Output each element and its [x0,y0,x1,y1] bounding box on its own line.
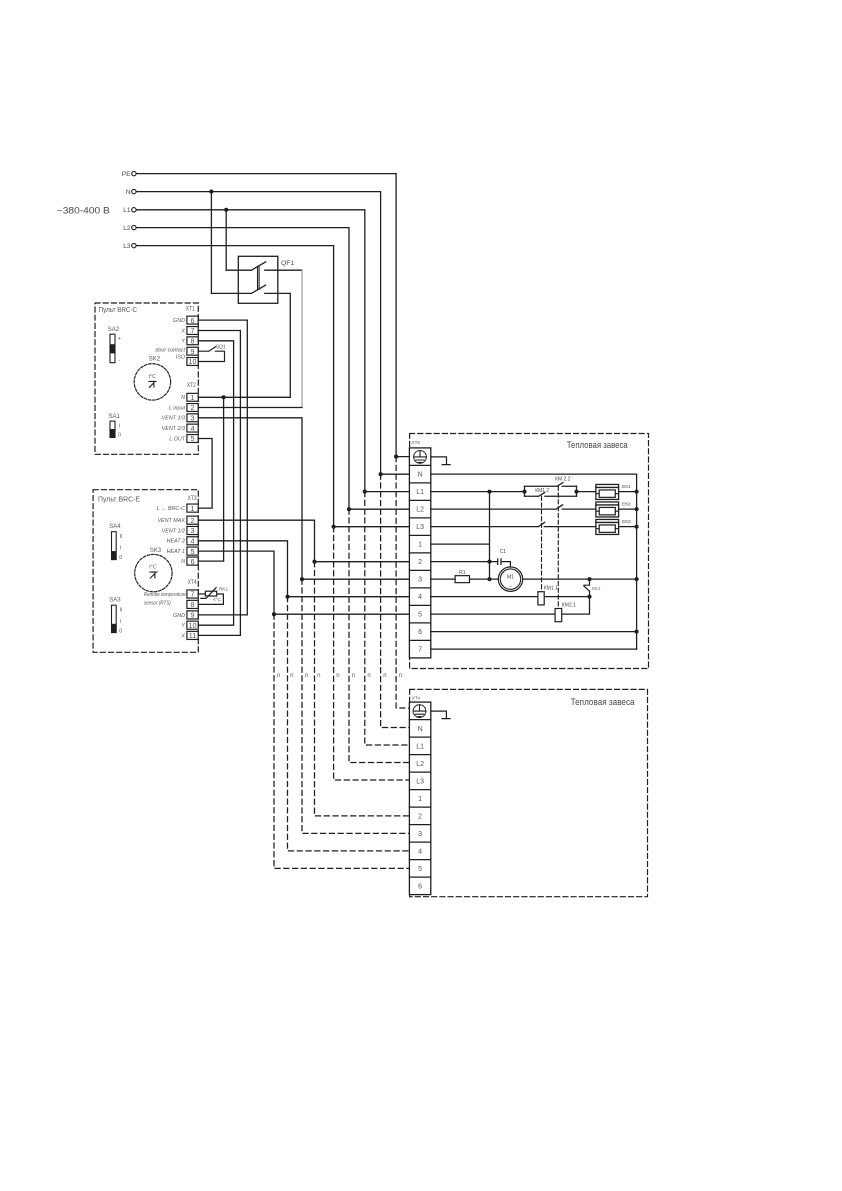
svg-text:N: N [181,559,185,565]
wire L1 down to QF1 pole 1 [225,210,227,270]
wire HEAT 2 dashed continuation to XTn-4 [288,597,410,851]
svg-text:+: + [118,336,121,342]
junction KM pair left [522,490,526,494]
svg-text:4: 4 [191,424,195,433]
svg-text:L3: L3 [416,524,424,531]
junction motor/SK1 [587,577,591,581]
svg-text:~: ~ [509,584,512,589]
terminal PE [132,171,136,175]
svg-text:SK1: SK1 [592,586,601,592]
svg-text:2: 2 [191,516,195,525]
junction KM pair right [574,490,578,494]
svg-text:~380-400 В: ~380-400 В [57,205,110,215]
svg-text:XT3: XT3 [188,496,198,502]
junction ЕК3/N bus [635,525,639,529]
svg-text:VENT 1/3: VENT 1/3 [162,416,185,422]
terminal XT2-5 [187,435,198,443]
terminal XT5-PE (earth) [414,451,427,464]
svg-text:6: 6 [191,316,195,325]
svg-text:II: II [120,534,123,540]
mechanical link KM1.2 (dashed) [541,496,543,591]
svg-text:XT1: XT1 [186,307,196,313]
ground symbol at XTn [431,711,450,719]
svg-text:10: 10 [189,357,197,366]
svg-text:GND: GND [173,613,185,619]
svg-text:X: X [180,328,185,334]
junction N / XT3-6 branch [222,395,226,399]
wire L2 dashed continuation to XTn-L2 [349,509,410,762]
svg-text:XT4: XT4 [188,580,198,586]
junction L2/XT5 [347,507,351,511]
svg-text:Тепловая завеса: Тепловая завеса [571,697,635,707]
svg-text:4: 4 [191,537,195,546]
svg-text:n: n [336,673,339,679]
svg-text:7: 7 [191,326,195,335]
junction VENT MAX / XT5-2 [312,560,316,564]
wire L1 branch to XT5-1, C1 and motor [431,492,490,580]
terminal L3 [132,243,136,247]
svg-text:1: 1 [191,504,195,513]
resistor R1 [431,570,499,582]
terminal XT4-10 [187,621,198,629]
svg-text:ЕК1: ЕК1 [622,484,631,490]
svg-text:n: n [383,673,386,679]
svg-text:7: 7 [191,590,195,599]
wire N dashed continuation to XTn-N [381,474,410,727]
wire VENT MAX dashed continuation to XTn-2 [315,562,410,816]
wire VENT 1/3 dashed continuation to XTn-3 [302,579,410,833]
terminal XT2-3 [187,414,198,422]
wire ЕК2 to N bus [619,508,637,510]
wire N from supply to XT5-N [136,192,409,475]
svg-text:R1: R1 [459,570,466,576]
wire PE dashed continuation to XTn-PE [396,457,409,708]
svg-text:n: n [305,673,308,679]
svg-text:6: 6 [418,883,422,890]
svg-text:L2: L2 [416,507,424,514]
junction HEAT 1 / XT5-5 [272,612,276,616]
svg-text:9: 9 [191,347,195,356]
contactor coil KM2.1 [431,597,590,622]
svg-text:8: 8 [191,337,195,346]
terminal N [132,189,136,193]
terminal XT1-6 [187,316,198,324]
svg-text:RK1: RK1 [219,587,229,593]
terminal XT4-8 [187,600,198,608]
svg-text:M1: M1 [507,574,514,580]
svg-text:0: 0 [118,433,121,439]
svg-text:3: 3 [418,577,422,584]
thermal switch SK1 [584,579,601,597]
svg-text:9: 9 [191,611,195,620]
svg-text:XT2: XT2 [187,383,197,389]
svg-text:6: 6 [191,557,195,566]
circuit breaker QF1 [211,256,294,303]
wire PE from supply to XT5-PE [136,174,409,457]
svg-text:3: 3 [418,831,422,838]
junction ЕК2/N bus [635,507,639,511]
terminal XT3-1 [187,504,198,512]
ground symbol at XT5 [431,457,450,465]
contactor coil KM1.1 [431,586,590,605]
svg-text:QF1: QF1 [281,260,294,267]
terminal XT3-2 [187,516,198,524]
svg-text:3: 3 [191,414,195,423]
svg-text:8: 8 [191,600,195,609]
svg-text:10: 10 [189,621,197,630]
svg-text:L1: L1 [416,743,424,750]
wire VENT MAX: XT3-2 to XT5-2 [198,520,409,562]
svg-text:1: 1 [191,393,195,402]
mechanical link KM2.2 (dashed) [557,486,559,608]
svg-text:n: n [367,673,370,679]
junction L1 / QF1 branch [224,208,228,212]
wire HEAT 1 dashed continuation to XTn-5 [274,614,410,868]
contactor contact KM1.2 pole on L3 [431,522,596,526]
heater ЕК1 [596,484,631,500]
thermostat SK3 [135,548,172,592]
svg-text:4: 4 [418,594,422,601]
wire ЕК3 to N bus [619,526,637,528]
svg-text:1: 1 [418,542,422,549]
labels n (wire designators) [277,673,402,679]
svg-text:PE: PE [122,171,131,178]
junction XT5-6/N bus [635,630,639,634]
svg-text:1: 1 [418,796,422,803]
svg-text:SQ1: SQ1 [216,344,226,350]
junction L1/motor branch [487,490,491,494]
svg-text:I: I [120,619,121,625]
terminal XT4-9 [187,611,198,619]
wire ЕК1 to N bus [619,491,637,493]
junction N/XT5 [379,472,383,476]
svg-text:n: n [290,673,293,679]
svg-text:XT5: XT5 [412,440,421,445]
svg-text:L ← BRC-C: L ← BRC-C [157,506,185,512]
svg-text:2: 2 [418,813,422,820]
svg-text:11: 11 [189,631,196,640]
junction L1/XT5 [363,490,367,494]
terminal XT4-7 [187,590,198,598]
svg-text:L input: L input [169,405,186,411]
contactor contact KM2.2 pole on L2 [431,505,596,509]
svg-text:2: 2 [418,559,422,566]
door switch SQ1 [198,344,226,361]
svg-text:SA2: SA2 [108,327,120,333]
svg-text:X: X [180,633,185,639]
svg-text:n: n [277,673,280,679]
svg-text:Y: Y [181,623,185,629]
svg-text:SK2: SK2 [149,357,161,363]
svg-text:n: n [317,673,320,679]
panel Пульт BRC-E (dashed enclosure) [93,490,198,653]
svg-text:L1: L1 [416,489,424,496]
svg-text:HEAT 1: HEAT 1 [167,549,185,555]
wire VENT 1/3: XT2-3 to XT5-3 [198,418,409,579]
thermistor RK1 [198,587,228,605]
junction ЕК1/N bus [635,490,639,494]
svg-text:L3: L3 [416,778,424,785]
svg-text:5: 5 [191,547,195,556]
terminal XT1-8 [187,337,198,345]
wire L3 from supply to XT5-L3 [136,246,409,527]
wire L1 to EK1 [577,491,596,493]
svg-text:SA3: SA3 [109,598,121,604]
junction SK1/coils [587,595,591,599]
junction motor/N bus [635,577,639,581]
svg-text:N: N [181,395,185,401]
svg-text:door contact: door contact [155,347,185,353]
svg-text:SK3: SK3 [150,548,162,554]
svg-text:N: N [418,472,423,479]
wire N branch to XT3-6 [198,397,223,561]
capacitor C1 [490,549,511,567]
motor M1 [498,567,522,591]
wire L2 from supply to XT5-L2 [136,228,409,510]
svg-text:0: 0 [119,629,122,635]
svg-text:Remote temperature: Remote temperature [144,592,186,598]
terminal L1 [132,208,136,212]
wire X: XT1-7 to XT4-11 [198,331,240,636]
svg-text:I: I [120,546,121,552]
terminal XT3-4 [187,537,198,545]
svg-text:t°C: t°C [149,565,157,571]
wire L OUT: XT2-5 to XT3-1 [198,439,212,509]
enclosure Тепловая завеса n (dashed) [410,689,648,896]
svg-text:N: N [126,189,131,196]
terminal L2 [132,225,136,229]
svg-text:Y: Y [181,339,185,345]
svg-text:HEAT 2: HEAT 2 [167,539,185,545]
heater ЕК2 [596,501,631,517]
svg-text:Пульт BRC-E: Пульт BRC-E [98,495,140,504]
svg-text:КМ2.1: КМ2.1 [562,603,576,609]
terminal XT4-11 [187,631,198,639]
svg-text:3: 3 [191,526,195,535]
switch SA4 [109,524,122,561]
terminal XT1-7 [187,327,198,335]
svg-text:VENT MAX: VENT MAX [157,518,185,524]
wire N down to QF1 pole 2 [210,192,212,294]
thermostat SK2 [134,357,170,400]
wire Y: XT1-8 to XT4-10 [198,341,233,625]
svg-text:-t°C: -t°C [213,597,222,603]
svg-text:t°C: t°C [149,374,157,380]
wire XT5-6 to N bus [431,631,637,633]
wire HEAT 2: XT3-4 to XT5-4 [198,541,409,597]
svg-text:VENT 1/2: VENT 1/2 [162,528,185,534]
terminal XT2-2 [187,404,198,412]
junction L3/XT5 [332,525,336,529]
svg-text:N: N [418,726,423,733]
junction C1 row [487,560,491,564]
svg-text:SA4: SA4 [109,524,121,530]
wire N bus [431,474,637,649]
switch SA1 [109,414,122,439]
wire XT5-7 to N bus [431,648,637,650]
svg-text:2: 2 [191,403,195,412]
junction N / QF1 branch [209,190,213,194]
svg-text:ISO: ISO [176,354,186,360]
svg-text:0: 0 [119,555,122,561]
svg-text:II: II [120,608,123,614]
svg-text:КМ1.1: КМ1.1 [544,586,558,592]
svg-text:КМ 2.2: КМ 2.2 [555,476,571,482]
svg-text:n: n [399,673,402,679]
terminal XT3-6 [187,557,198,565]
terminal XT3-5 [187,547,198,555]
terminal XT2-1 [187,393,198,401]
junction motor row [487,577,491,581]
terminal XT1-9 [187,347,198,355]
svg-text:6: 6 [418,629,422,636]
svg-text:GND: GND [173,318,185,324]
wire N: XT2-1 row [198,396,290,398]
svg-text:КМ1.2: КМ1.2 [535,488,549,494]
svg-text:5: 5 [418,612,422,619]
wire L input: XT2-2 row [198,407,302,409]
svg-text:L2: L2 [123,225,131,232]
svg-text:sensor (RTS): sensor (RTS) [144,601,171,607]
svg-text:C1: C1 [500,549,507,555]
wire L1 row in curtain [431,491,525,493]
terminal XTn-PE (earth) [413,705,426,718]
svg-text:XTn: XTn [412,695,421,700]
wire motor to N bus [523,578,637,580]
junction HEAT 2 / XT5-4 [285,595,289,599]
enclosure Тепловая завеса 1 (dashed) [410,434,649,669]
wire L1 from supply to XT5-L1 [136,210,409,492]
svg-text:L3: L3 [123,243,131,250]
svg-text:Пульт BRC-C: Пульт BRC-C [99,305,138,314]
svg-text:SA1: SA1 [109,414,121,420]
junction VENT 1/3 / XT5-3 [300,577,304,581]
svg-text:n: n [352,673,355,679]
panel Пульт BRC-C (dashed enclosure) [95,303,198,454]
svg-text:Тепловая завеса: Тепловая завеса [567,440,628,450]
svg-text:7: 7 [418,647,422,654]
wire HEAT 1: XT3-5 to XT5-5 [198,551,409,614]
wire L3 dashed continuation to XTn-L3 [334,527,410,780]
heater ЕК3 [596,519,631,535]
svg-text:L2: L2 [416,761,424,768]
wire GND: XT1-6 to XT4-9 [198,320,247,615]
switch SA2 [108,327,121,364]
svg-text:L OUT: L OUT [169,436,185,442]
svg-text:4: 4 [418,848,422,855]
svg-text:-: - [118,358,120,364]
junction PE/XT5 [394,455,398,459]
svg-text:5: 5 [418,866,422,873]
svg-text:L1: L1 [123,207,131,214]
terminal XT3-3 [187,526,198,534]
wire QF1 pole 2 output to XT2-1 (N) [265,293,291,397]
contactor contacts KM1.2 / KM2.2 (parallel pair on L1) [525,476,577,496]
wire L1 dashed continuation to XTn-L1 [365,492,410,745]
terminal XT2-4 [187,424,198,432]
svg-text:ЕК2: ЕК2 [622,501,631,507]
svg-text:ЕК3: ЕК3 [622,519,631,525]
wire QF1 pole 1 output to XT2-2 (L input) [265,269,302,271]
svg-text:5: 5 [191,434,195,443]
terminal XT1-10 [187,358,198,366]
svg-text:I: I [119,423,121,429]
svg-text:VENT 2/3: VENT 2/3 [162,426,185,432]
switch SA3 [109,598,122,635]
